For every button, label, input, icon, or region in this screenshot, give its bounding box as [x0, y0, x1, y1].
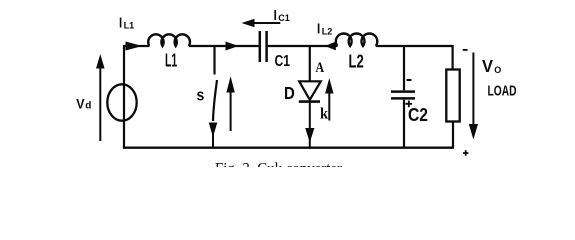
arrow into C1 on top rail: [226, 42, 239, 51]
switch S lower wire: [212, 125, 214, 148]
svg-text:C1: C1: [275, 53, 291, 70]
label plus output bottom: [463, 150, 468, 155]
capacitor C2 plate bottom: [391, 97, 415, 100]
wire load branch bottom: [452, 122, 454, 148]
svg-text:Fig. 3. Cuk converter: Fig. 3. Cuk converter: [215, 159, 342, 167]
svg-text:LOAD: LOAD: [488, 84, 517, 100]
capacitor C2 stem bottom: [403, 100, 405, 148]
capacitor C1 plate right: [265, 31, 268, 62]
svg-text:V: V: [76, 95, 85, 111]
switch S blade: [213, 80, 217, 121]
load resistor box: [446, 70, 459, 122]
svg-text:k: k: [320, 106, 328, 123]
inductor L1: [148, 34, 190, 46]
svg-text:L1: L1: [165, 50, 177, 70]
diode D stem from top rail: [309, 46, 311, 81]
arrow diode voltage up: [328, 93, 330, 121]
svg-text:L2: L2: [322, 26, 333, 37]
svg-text:I: I: [119, 16, 122, 32]
svg-text:A: A: [316, 60, 325, 76]
diode D cathode bar: [299, 100, 320, 103]
svg-text:C2: C2: [408, 105, 428, 125]
svg-text:L2: L2: [349, 51, 364, 72]
svg-text:O: O: [494, 65, 501, 75]
label minus C2: [407, 79, 412, 81]
arrow diode down: [305, 128, 314, 143]
capacitor C1 plate left: [259, 31, 262, 62]
wire top rail right segment: [268, 45, 338, 47]
label minus output top: [463, 49, 468, 51]
arrow switch down: [209, 123, 218, 138]
svg-text:I: I: [317, 22, 320, 38]
voltage source Vd circle: [107, 84, 136, 120]
wire top rail left segment: [124, 45, 150, 47]
wire top rail L2 to load: [376, 45, 453, 47]
diode D lower wire: [309, 102, 311, 148]
arrow IC1: [251, 22, 280, 24]
wire top rail L1 to C1: [189, 45, 259, 47]
wire load branch top: [452, 45, 454, 70]
svg-text:L1: L1: [124, 21, 135, 32]
svg-text:I: I: [274, 8, 277, 24]
svg-text:V: V: [482, 56, 493, 76]
svg-text:C1: C1: [278, 13, 290, 24]
svg-text:D: D: [284, 83, 295, 103]
arrow switch current up: [230, 90, 232, 131]
capacitor C2 plate top: [391, 90, 415, 93]
svg-text:s: s: [197, 86, 205, 105]
arrow IL2 (points left): [325, 42, 336, 51]
wire left branch vertical: [123, 45, 125, 148]
svg-text:d: d: [85, 101, 91, 112]
capacitor C2 stem top: [403, 46, 405, 90]
switch S stem from top rail: [213, 46, 215, 75]
inductor L2: [336, 33, 377, 46]
diode D triangle: [299, 81, 321, 100]
label plus C2: [405, 101, 412, 108]
arrow Vo down: [472, 53, 474, 125]
wire bottom rail: [123, 146, 454, 148]
arrow Vd direction: [99, 66, 101, 141]
arrow IL1 on top rail: [126, 42, 143, 51]
